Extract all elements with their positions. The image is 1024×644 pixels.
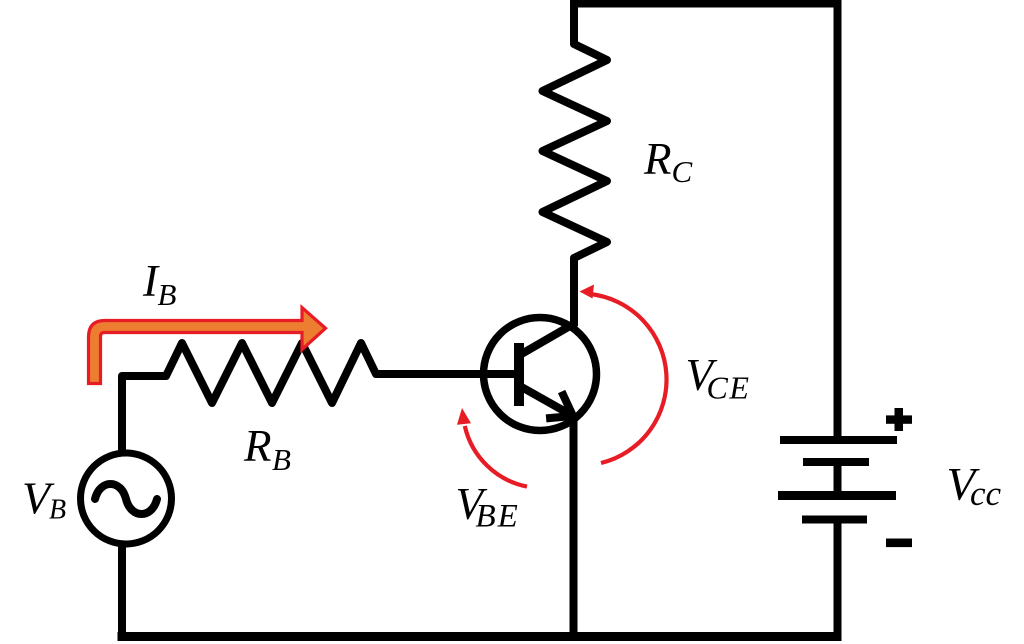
svg-text:B: B xyxy=(272,442,291,477)
svg-text:R: R xyxy=(643,134,672,184)
svg-text:R: R xyxy=(243,421,272,471)
svg-text:cc: cc xyxy=(970,474,1002,513)
svg-text:B: B xyxy=(49,495,66,526)
svg-text:C: C xyxy=(672,154,693,189)
svg-text:B: B xyxy=(158,277,177,312)
svg-text:CE: CE xyxy=(707,369,751,405)
svg-text:BE: BE xyxy=(476,498,520,534)
